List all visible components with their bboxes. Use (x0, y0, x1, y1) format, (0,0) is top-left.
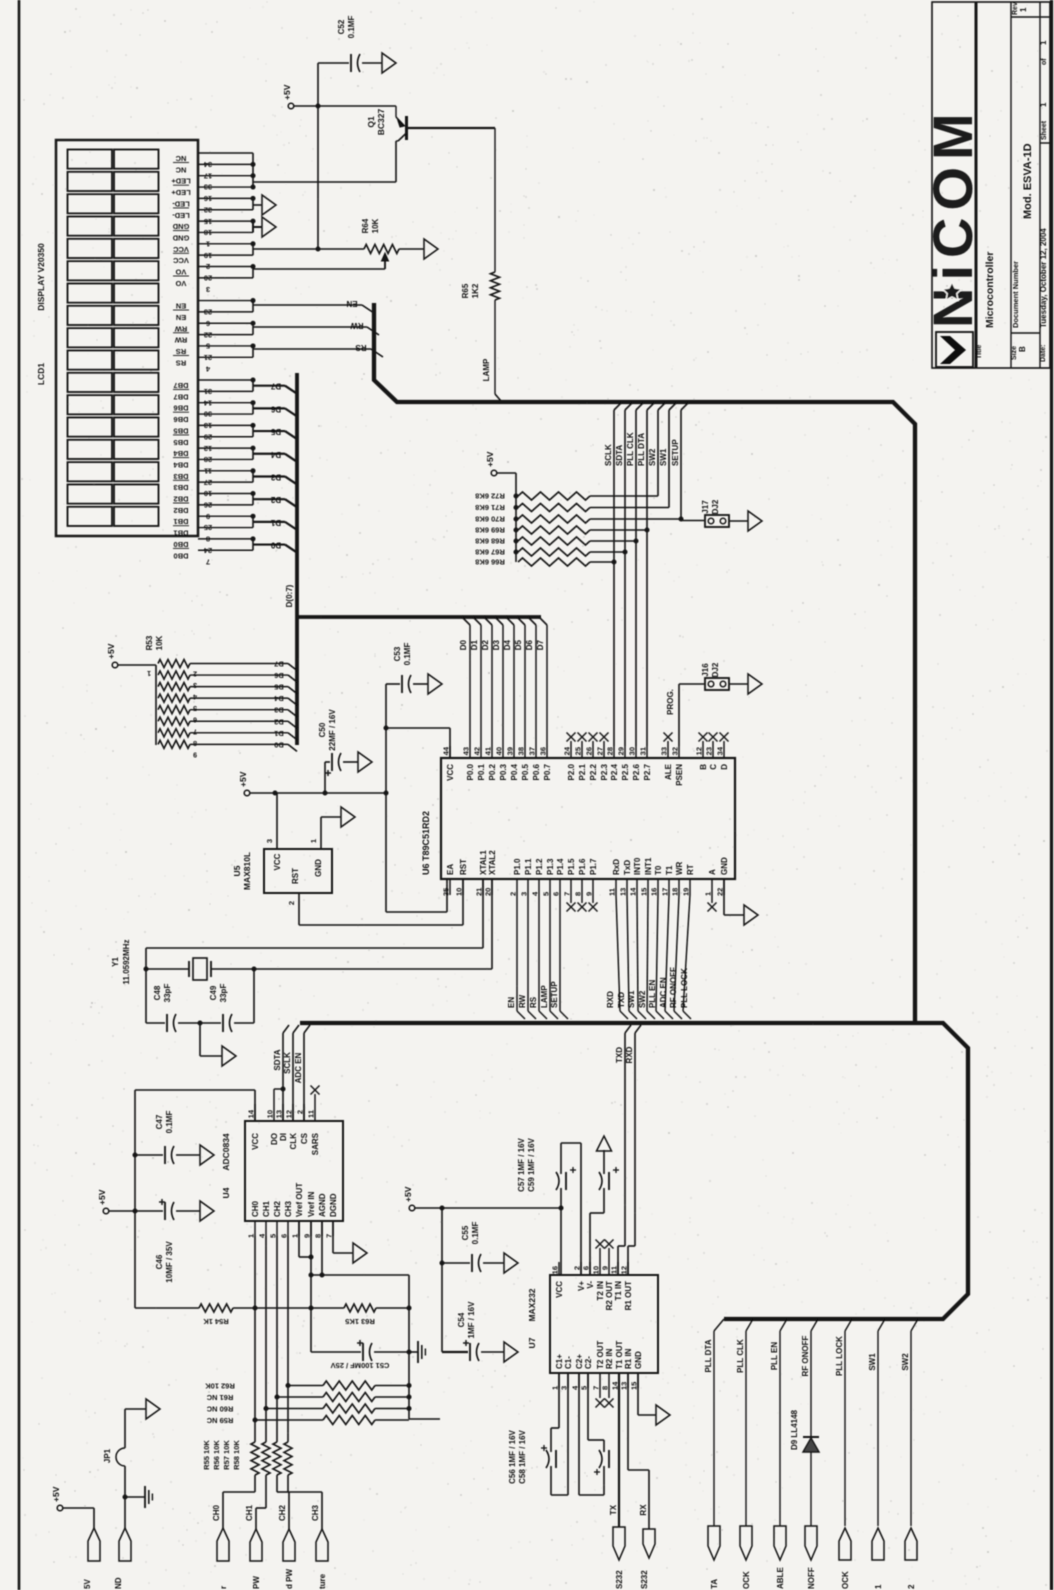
svg-text:8: 8 (314, 1234, 323, 1238)
svg-text:Microcontroller: Microcontroller (984, 252, 996, 328)
svg-text:12: 12 (620, 1266, 629, 1274)
svg-text:+5V: +5V (238, 771, 248, 787)
svg-text:C1+: C1+ (555, 1354, 564, 1369)
ground U7 GND (638, 1373, 670, 1425)
svg-text:R53: R53 (145, 635, 154, 650)
wires RxD..RT to bus RXD TXD SW1 SW2 PLL EN ADC EN RF ONOFF PLL LOCK (606, 895, 691, 1019)
svg-text:EN: EN (176, 302, 186, 311)
svg-text:DB3: DB3 (173, 483, 188, 492)
svg-text:RXD: RXD (625, 1046, 634, 1063)
svg-text:R69 6K8: R69 6K8 (475, 526, 505, 535)
svg-text:R60 NC: R60 NC (206, 1405, 233, 1414)
svg-text:5V: 5V (83, 1579, 92, 1589)
svg-text:CH3: CH3 (284, 1200, 293, 1217)
label Microcontroller (984, 252, 996, 328)
diode D9 LL4148 (790, 1409, 819, 1452)
svg-text:ture: ture (318, 1573, 327, 1589)
svg-text:23: 23 (705, 747, 714, 755)
svg-text:R61 NC: R61 NC (206, 1393, 233, 1402)
wires D0..D7 bus to U6 P0 (459, 617, 547, 746)
svg-text:11: 11 (608, 888, 617, 896)
svg-text:+5V: +5V (403, 1186, 413, 1202)
svg-text:P2.6: P2.6 (632, 763, 641, 780)
svg-text:R58 10K: R58 10K (232, 1440, 241, 1470)
wire XTAL2 (211, 879, 492, 1023)
svg-text:11.0592MHz: 11.0592MHz (122, 940, 131, 985)
wire CH1 to connector (256, 1475, 266, 1529)
svg-text:9: 9 (601, 1266, 610, 1270)
capacitor C46 10MF/35V (109, 1199, 200, 1283)
svg-text:P1.0: P1.0 (513, 858, 522, 875)
label DISPLAY V20350 (36, 243, 46, 311)
svg-text:+5V: +5V (485, 451, 495, 467)
svg-text:P0.1: P0.1 (477, 763, 486, 780)
svg-text:D3: D3 (492, 639, 501, 650)
svg-text:ALE: ALE (664, 763, 673, 780)
svg-text:Tuesday, October 12, 2004: Tuesday, October 12, 2004 (1039, 228, 1048, 328)
connector PLL EN (774, 1526, 786, 1589)
svg-text:1K2: 1K2 (471, 283, 480, 298)
svg-text:1: 1 (291, 1234, 300, 1238)
svg-text:32: 32 (671, 747, 680, 755)
svg-text:DB4: DB4 (173, 449, 189, 458)
svg-text:P1.1: P1.1 (524, 858, 533, 875)
label Mod ESVA-1D (1022, 143, 1034, 219)
bus data D(0:7) (285, 373, 541, 745)
svg-text:EN: EN (346, 299, 357, 308)
svg-text:10MF / 35V: 10MF / 35V (165, 1241, 174, 1283)
ground U5 GND pin 1 (309, 807, 355, 849)
svg-text:PLL EN: PLL EN (648, 979, 657, 1008)
svg-text:D2: D2 (270, 495, 281, 504)
svg-text:V-: V- (586, 1281, 595, 1289)
svg-text:D2: D2 (481, 639, 490, 650)
wire CH0 to connector (223, 1475, 255, 1528)
svg-text:D7: D7 (270, 382, 281, 391)
svg-text:21: 21 (475, 888, 484, 896)
svg-text:P0.0: P0.0 (466, 763, 475, 780)
svg-text:S232: S232 (640, 1570, 649, 1589)
svg-text:DB0: DB0 (173, 540, 188, 549)
svg-text:CH3: CH3 (311, 1504, 320, 1521)
connector PLL CLK (740, 1526, 752, 1589)
svg-text:T2 OUT: T2 OUT (596, 1340, 605, 1369)
wire Q1 collector to LCD LED+ (395, 141, 397, 182)
svg-text:LAMP: LAMP (540, 985, 549, 1008)
svg-text:SDTA: SDTA (615, 445, 624, 466)
wires CH0-CH3 with resistors R55-R58 10K (202, 1236, 292, 1475)
svg-text:GND: GND (634, 1351, 643, 1369)
power +5V bottom (51, 1486, 63, 1510)
wire CH3 to connector (288, 1475, 322, 1529)
LCD1 character cells (68, 150, 159, 526)
svg-text:J16: J16 (701, 663, 710, 677)
svg-text:Q1: Q1 (366, 116, 376, 128)
connector CH0 (212, 1504, 229, 1561)
svg-text:10: 10 (266, 1110, 275, 1118)
svg-text:CH2: CH2 (273, 1200, 282, 1217)
svg-text:of: of (1041, 58, 1048, 65)
svg-text:CH1: CH1 (262, 1200, 271, 1217)
svg-text:T0: T0 (654, 865, 663, 875)
svg-text:LCD1: LCD1 (36, 363, 46, 385)
ground C47 (200, 1145, 214, 1165)
wires LCD DB7..DB0 to data bus (251, 378, 298, 553)
svg-text:r: r (219, 1586, 228, 1589)
svg-text:D1: D1 (270, 518, 281, 527)
svg-text:LED+: LED+ (171, 188, 191, 197)
svg-text:14: 14 (247, 1109, 256, 1118)
connector SW1 (872, 1528, 884, 1589)
svg-text:D3: D3 (270, 472, 281, 481)
svg-text:U5: U5 (232, 865, 242, 876)
svg-text:31: 31 (639, 747, 648, 755)
svg-text:33: 33 (660, 747, 669, 755)
wire LCD NC/LED+ pairs to Q1 collector (251, 153, 397, 190)
svg-text:SW2: SW2 (638, 990, 647, 1008)
svg-text:T1 OUT: T1 OUT (615, 1340, 624, 1369)
svg-text:PLL LOCK: PLL LOCK (680, 968, 689, 1008)
label Document Number (1011, 261, 1020, 328)
svg-text:28: 28 (606, 747, 615, 755)
label Date (1040, 344, 1047, 362)
wire VCC 44 riser (384, 726, 451, 759)
svg-text:Sheet: Sheet (1041, 120, 1048, 140)
svg-text:R1 OUT: R1 OUT (624, 1281, 633, 1310)
svg-text:D5: D5 (274, 683, 284, 692)
svg-text:1: 1 (704, 892, 713, 896)
svg-text:D2: D2 (274, 717, 284, 726)
svg-text:P2.0: P2.0 (567, 763, 576, 780)
svg-text:P0.3: P0.3 (499, 763, 508, 780)
svg-text:C53: C53 (393, 646, 402, 661)
svg-text:6: 6 (280, 1234, 289, 1238)
svg-text:2: 2 (296, 1110, 305, 1114)
svg-text:19: 19 (682, 888, 691, 896)
connector TX (613, 1527, 625, 1589)
wire R59 common stub (409, 1418, 440, 1420)
svg-text:DI: DI (279, 1133, 288, 1141)
connector PLL DTA (708, 1526, 720, 1589)
title block frame (932, 2, 1050, 368)
IC U7 MAX232 (527, 1275, 658, 1373)
svg-text:R2 IN: R2 IN (605, 1348, 614, 1369)
svg-text:7: 7 (592, 1386, 601, 1390)
svg-text:BC327: BC327 (376, 109, 386, 136)
svg-text:1: 1 (1039, 40, 1048, 45)
svg-text:NC: NC (175, 165, 186, 174)
svg-text:0.1MF: 0.1MF (403, 643, 412, 666)
svg-text:JP1: JP1 (103, 1448, 112, 1463)
svg-text:MAX232: MAX232 (527, 1288, 537, 1321)
svg-text:DB0: DB0 (173, 551, 188, 560)
connector +5V (83, 1528, 100, 1589)
connector PLL LOCK (839, 1528, 851, 1589)
svg-text:12: 12 (695, 747, 704, 755)
svg-text:Vref OUT: Vref OUT (295, 1183, 304, 1217)
capacitor C48 33pF (146, 984, 200, 1032)
svg-text:RW: RW (518, 994, 527, 1008)
label date value (1039, 228, 1048, 328)
svg-text:0.1MF: 0.1MF (347, 16, 356, 39)
wire +5V to resistor ladder (497, 473, 516, 562)
label Title (976, 345, 983, 359)
svg-text:D(0:7): D(0:7) (285, 584, 294, 607)
resistors R59-R62 (205, 1381, 412, 1425)
wire LAMP to bus (482, 300, 501, 401)
svg-text:14: 14 (629, 887, 638, 896)
svg-text:P2.5: P2.5 (621, 763, 630, 780)
svg-text:9: 9 (193, 750, 197, 757)
svg-text:+5V: +5V (106, 643, 116, 659)
svg-text:2: 2 (287, 901, 296, 905)
svg-text:RF ONOFF: RF ONOFF (801, 1335, 810, 1376)
connector CH1 (245, 1504, 262, 1561)
U7 top pins (551, 1240, 634, 1311)
capacitor C47 0.1MF (135, 1111, 200, 1164)
wires P1.0-P1.4 EN RW RS LAMP SETUP to bus (507, 895, 568, 1019)
wire U5 VCC pin 3 (265, 793, 277, 849)
svg-text:C1-: C1- (564, 1356, 573, 1369)
svg-text:9: 9 (303, 1234, 312, 1238)
svg-text:1: 1 (147, 669, 151, 676)
svg-text:DB6: DB6 (173, 404, 188, 413)
svg-text:C46: C46 (155, 1254, 164, 1269)
svg-text:SCLK: SCLK (283, 1052, 292, 1074)
svg-text:5: 5 (269, 1234, 278, 1238)
svg-text:R65: R65 (461, 283, 470, 298)
svg-text:DB3: DB3 (173, 472, 188, 481)
ground U4 DGND (333, 1221, 367, 1263)
connector SW2 (905, 1528, 917, 1589)
wire TX (609, 1373, 619, 1527)
svg-text:B: B (699, 764, 708, 770)
power +5V U7 (403, 1186, 415, 1210)
wire CH2 to connector (277, 1475, 289, 1529)
svg-text:PSEN: PSEN (675, 764, 684, 786)
svg-text:GND: GND (172, 222, 189, 231)
svg-text:P1.7: P1.7 (589, 858, 598, 875)
svg-text:RS: RS (176, 347, 186, 356)
svg-text:RS: RS (529, 996, 538, 1008)
resistor R64 10K trimmer (318, 218, 399, 269)
svg-text:5: 5 (542, 892, 551, 896)
svg-text:+5V: +5V (282, 84, 292, 100)
svg-text:P0.5: P0.5 (521, 763, 530, 780)
connector J17 DJ2 (679, 499, 730, 527)
resistor network R53 10K (145, 635, 297, 757)
wire PLL EN (770, 1319, 787, 1526)
svg-text:VCC: VCC (173, 256, 189, 265)
wire Vref OUT (299, 1221, 314, 1260)
svg-text:8: 8 (601, 1386, 610, 1390)
wire Q1 base to R65 (407, 128, 496, 272)
svg-text:GND: GND (314, 859, 323, 877)
transistor Q1 BC327 (366, 106, 407, 141)
svg-text:EA: EA (446, 864, 455, 875)
ground C46 (200, 1201, 214, 1221)
svg-text:RXD: RXD (606, 991, 615, 1008)
svg-text:SETUP: SETUP (671, 439, 680, 466)
svg-text:5: 5 (580, 1386, 589, 1390)
svg-text:42: 42 (473, 747, 482, 755)
svg-text:SARS: SARS (311, 1132, 320, 1155)
svg-text:Size: Size (1011, 346, 1018, 360)
svg-text:DB1: DB1 (173, 529, 188, 538)
svg-text:R63 1K5: R63 1K5 (345, 1317, 375, 1326)
svg-text:RST: RST (459, 859, 468, 875)
wire +5V to connector (63, 1508, 94, 1528)
svg-text:10K: 10K (371, 218, 380, 233)
ground JP1 bottom rake (123, 1466, 153, 1508)
svg-text:9: 9 (585, 892, 594, 896)
svg-text:DB4: DB4 (173, 460, 189, 469)
svg-text:41: 41 (484, 747, 493, 755)
svg-text:37: 37 (528, 747, 537, 755)
svg-text:D0: D0 (270, 541, 281, 550)
svg-text:D5: D5 (514, 639, 523, 650)
svg-text:C49: C49 (209, 985, 218, 1000)
bus lower outline (300, 1023, 968, 1319)
wire PROG from PSEN (666, 684, 705, 746)
resistors R66-R72 6K8 pullups (475, 492, 681, 567)
svg-text:P2.7: P2.7 (643, 763, 652, 780)
svg-text:D6: D6 (525, 639, 534, 650)
svg-text:D1: D1 (470, 639, 479, 650)
wires TXD RXD bus to U7 (615, 1025, 641, 1275)
svg-text:VO: VO (175, 268, 186, 277)
wires SDTA SCLK ADC EN bus to U4 (273, 1025, 310, 1121)
svg-text:2: 2 (907, 1584, 916, 1589)
wire EA to +5V (386, 793, 447, 912)
svg-text:8: 8 (574, 892, 583, 896)
svg-text:+5V: +5V (51, 1486, 61, 1502)
wire SW1 (868, 1319, 885, 1526)
connector CH3 (311, 1504, 328, 1561)
svg-text:TX: TX (609, 1504, 618, 1515)
svg-text:22: 22 (716, 888, 725, 896)
svg-text:17: 17 (661, 888, 670, 896)
svg-text:GND: GND (172, 233, 189, 242)
svg-text:13: 13 (619, 888, 628, 896)
U4 top pins (247, 1086, 321, 1156)
power +5V R66-R72 (485, 451, 497, 475)
svg-text:10: 10 (592, 1266, 601, 1274)
svg-text:MAX810L: MAX810L (242, 852, 252, 890)
ground C59 top (597, 1136, 612, 1151)
svg-text:TA: TA (710, 1579, 719, 1589)
svg-text:P0.6: P0.6 (532, 763, 541, 780)
svg-text:C54: C54 (457, 1312, 466, 1327)
U7 bottom pins (551, 1340, 644, 1407)
svg-text:TXD: TXD (615, 1047, 624, 1063)
svg-text:D6: D6 (270, 404, 281, 413)
svg-text:D0: D0 (274, 740, 284, 749)
svg-text:44: 44 (442, 746, 451, 755)
svg-text:RT: RT (686, 864, 695, 875)
svg-text:26: 26 (585, 747, 594, 755)
svg-text:D7: D7 (274, 660, 284, 669)
logo NiCOM (921, 106, 984, 367)
svg-text:10K: 10K (155, 635, 164, 650)
svg-text:CH0: CH0 (212, 1504, 221, 1521)
svg-text:D4: D4 (273, 694, 283, 703)
svg-text:C48: C48 (153, 985, 162, 1000)
svg-text:RX: RX (639, 1504, 648, 1516)
svg-text:C50: C50 (318, 722, 327, 737)
svg-text:TxD: TxD (623, 860, 632, 875)
wire +5V to U7 VCC (415, 1206, 564, 1211)
svg-text:3: 3 (560, 1386, 569, 1390)
svg-text:R1 IN: R1 IN (624, 1348, 633, 1369)
svg-text:CS: CS (300, 1132, 309, 1144)
wire EN from LCD to bus (251, 298, 375, 313)
svg-text:NC: NC (175, 154, 186, 163)
svg-text:1: 1 (874, 1584, 883, 1589)
svg-text:ADC EN: ADC EN (294, 1052, 303, 1083)
LCD1 pin names numbers and stubs (171, 153, 253, 566)
svg-text:P1.2: P1.2 (535, 858, 544, 875)
svg-text:30: 30 (628, 747, 637, 755)
svg-text:D0: D0 (459, 639, 468, 650)
capacitor C52 0.1MF (337, 16, 360, 72)
svg-text:+5V: +5V (97, 1189, 107, 1205)
svg-text:PLL EN: PLL EN (770, 1342, 779, 1371)
svg-text:R72 6K8: R72 6K8 (475, 492, 505, 501)
svg-text:27: 27 (596, 747, 605, 755)
svg-text:ADC0834: ADC0834 (221, 1133, 231, 1171)
svg-text:R66 6K8: R66 6K8 (475, 558, 505, 567)
wire RX (628, 1373, 649, 1529)
svg-text:Rev: Rev (1012, 2, 1019, 15)
capacitor C59 1MF/16V (527, 1137, 619, 1275)
svg-text:R64: R64 (361, 218, 370, 233)
svg-text:RF ONOFF: RF ONOFF (669, 967, 678, 1008)
ground C51 rake (409, 1341, 425, 1363)
svg-text:DJ2: DJ2 (711, 662, 720, 677)
svg-text:33pF: 33pF (219, 984, 228, 1003)
svg-text:DJ2: DJ2 (711, 499, 720, 514)
svg-text:AGND: AGND (318, 1193, 327, 1217)
svg-text:13: 13 (620, 1382, 629, 1390)
svg-text:RxD: RxD (612, 859, 621, 875)
sheet right border (1050, 0, 1053, 1590)
svg-text:VO: VO (175, 279, 186, 288)
svg-text:P0.2: P0.2 (488, 763, 497, 780)
label LCD1 (36, 363, 46, 385)
svg-text:1: 1 (309, 839, 318, 843)
svg-text:SDTA: SDTA (273, 1049, 282, 1070)
svg-text:LED+: LED+ (171, 177, 191, 186)
svg-text:29: 29 (617, 747, 626, 755)
LCD1 display V20350 outline (56, 140, 198, 536)
wire U5 RST pin 2 to U6 RST (287, 879, 463, 925)
svg-text:R62 10K: R62 10K (205, 1382, 235, 1391)
svg-text:33pF: 33pF (163, 984, 172, 1003)
svg-text:U6 T89C51RD2: U6 T89C51RD2 (421, 811, 431, 875)
svg-text:CH1: CH1 (245, 1504, 254, 1521)
connector GND (114, 1497, 131, 1589)
svg-text:1MF / 16V: 1MF / 16V (467, 1301, 476, 1339)
svg-text:35: 35 (442, 888, 451, 896)
ground C50 (343, 752, 372, 772)
svg-text:SW2: SW2 (901, 1353, 910, 1371)
svg-text:36: 36 (539, 747, 548, 755)
svg-text:C2+: C2+ (575, 1354, 584, 1369)
svg-text:P1.5: P1.5 (567, 858, 576, 875)
svg-text:RW: RW (174, 336, 187, 345)
svg-text:LED-: LED- (172, 211, 190, 220)
